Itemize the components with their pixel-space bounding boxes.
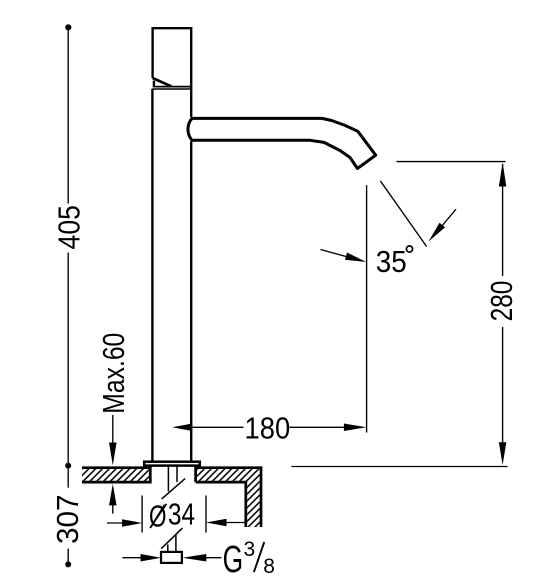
- svg-text:405: 405: [51, 205, 86, 249]
- svg-text:307: 307: [50, 495, 85, 545]
- svg-text:34: 34: [168, 496, 195, 531]
- svg-text:3: 3: [244, 538, 256, 561]
- svg-text:280: 280: [484, 281, 519, 322]
- svg-text:G: G: [223, 539, 244, 581]
- svg-text:180: 180: [245, 410, 291, 445]
- svg-text:35: 35: [376, 244, 407, 279]
- svg-text:8: 8: [263, 555, 275, 578]
- svg-text:Max.60: Max.60: [96, 333, 131, 414]
